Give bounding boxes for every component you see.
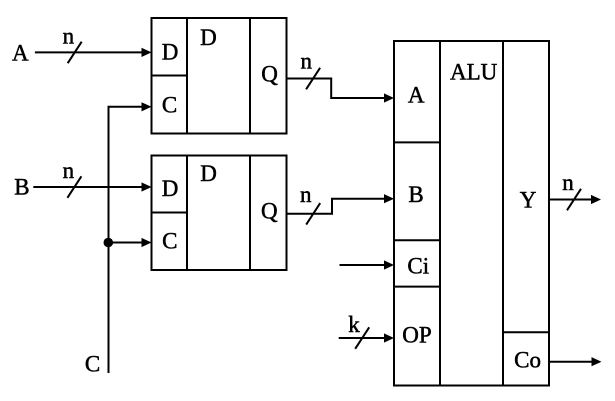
svg-text:Q: Q bbox=[261, 199, 278, 224]
arrowhead output Y bbox=[591, 195, 601, 204]
svg-text:D: D bbox=[200, 25, 217, 50]
arrowhead into U2.D bbox=[142, 182, 152, 191]
svg-text:A: A bbox=[12, 40, 29, 65]
bus slash on wire Y bbox=[567, 189, 581, 211]
wire U2.Q to ALU.B bbox=[287, 199, 386, 214]
wire input k to ALU.OP bbox=[339, 337, 385, 339]
svg-text:Y: Y bbox=[520, 187, 537, 212]
svg-text:n: n bbox=[301, 49, 313, 74]
arrowhead into ALU.A bbox=[384, 93, 394, 102]
wire input B to U2.D bbox=[33, 186, 142, 188]
svg-text:ALU: ALU bbox=[450, 60, 498, 85]
arrowhead output Co bbox=[592, 357, 602, 366]
wire output Y bbox=[549, 199, 592, 201]
svg-text:B: B bbox=[14, 174, 29, 199]
ALU U3 bbox=[394, 41, 549, 386]
svg-text:C: C bbox=[162, 228, 177, 253]
arrowhead into ALU.Ci bbox=[384, 260, 394, 269]
svg-text:Q: Q bbox=[261, 61, 278, 86]
arrowhead into U2.C bbox=[142, 238, 152, 247]
wire U1.Q to ALU.A bbox=[287, 79, 386, 99]
wire input A to U1.D bbox=[35, 51, 143, 53]
junction dot on clock net bbox=[104, 238, 114, 248]
svg-text:k: k bbox=[348, 312, 360, 337]
wire input Ci to ALU.Ci bbox=[340, 264, 386, 266]
arrowhead into ALU.B bbox=[384, 194, 394, 203]
bus slash on wire Q1 bbox=[306, 68, 320, 90]
wire output Co bbox=[549, 361, 593, 363]
svg-text:n: n bbox=[63, 158, 75, 183]
arrowhead into ALU.OP bbox=[384, 333, 394, 342]
svg-text:n: n bbox=[300, 182, 312, 207]
svg-text:C: C bbox=[85, 352, 100, 377]
svg-text:D: D bbox=[162, 176, 179, 201]
svg-text:B: B bbox=[408, 182, 423, 207]
svg-text:Ci: Ci bbox=[407, 253, 429, 278]
svg-text:Co: Co bbox=[514, 347, 541, 372]
register U2 (D flip-flop, input B) bbox=[152, 156, 287, 271]
register U1 (D flip-flop, input A) bbox=[152, 18, 287, 134]
bus slash on wire A bbox=[68, 42, 82, 64]
wire clock branch to U2.C bbox=[109, 242, 143, 244]
svg-text:A: A bbox=[408, 83, 425, 108]
arrowhead into U1.C bbox=[142, 102, 152, 111]
svg-text:OP: OP bbox=[402, 322, 431, 347]
wire clock C vertical with turn into U1.C bbox=[109, 107, 143, 373]
svg-text:C: C bbox=[162, 92, 177, 117]
bus slash on wire OP bbox=[355, 327, 369, 349]
svg-text:n: n bbox=[562, 170, 574, 195]
bus slash on wire B bbox=[67, 176, 81, 198]
svg-text:D: D bbox=[200, 161, 217, 186]
svg-text:D: D bbox=[162, 40, 179, 65]
svg-text:n: n bbox=[63, 23, 75, 48]
bus slash on wire Q2 bbox=[306, 203, 320, 225]
arrowhead into U1.D bbox=[142, 48, 152, 57]
